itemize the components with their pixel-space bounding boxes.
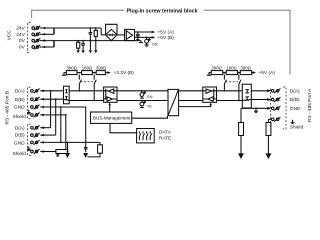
svg-text:Plug-in screw terminal block: Plug-in screw terminal block (127, 8, 199, 14)
svg-text:180Ω: 180Ω (82, 66, 93, 71)
svg-text:D(A): D(A) (290, 88, 300, 94)
svg-text:VCC: VCC (7, 30, 13, 41)
svg-text:D(B): D(B) (15, 133, 25, 139)
svg-text:0V: 0V (19, 38, 26, 44)
svg-text:GND: GND (14, 140, 25, 146)
svg-text:ON: ON (152, 42, 158, 46)
svg-text:390Ω: 390Ω (96, 66, 107, 71)
svg-text:Shield: Shield (12, 114, 26, 120)
svg-text:D(B): D(B) (15, 97, 25, 103)
svg-text:RS - 485 Port A: RS - 485 Port A (307, 88, 313, 122)
svg-text:GND: GND (14, 105, 25, 111)
svg-text:Shield: Shield (12, 151, 26, 157)
svg-text:390Ω: 390Ω (211, 66, 222, 71)
svg-text:RS - 485 Port B: RS - 485 Port B (5, 91, 11, 125)
svg-text:D(A): D(A) (15, 88, 25, 94)
svg-text:+5V (B): +5V (B) (158, 35, 175, 41)
svg-text:+3.3V (B): +3.3V (B) (114, 70, 135, 76)
svg-text:D(A): D(A) (15, 125, 25, 131)
svg-text:BUS-Management: BUS-Management (93, 116, 131, 121)
svg-text:+5V (A): +5V (A) (259, 70, 276, 76)
svg-text:GN: GN (147, 95, 153, 99)
svg-text:0V: 0V (19, 45, 26, 51)
svg-text:DATA: DATA (159, 129, 172, 135)
svg-text:Shield: Shield (290, 124, 304, 130)
svg-text:D(B): D(B) (290, 97, 300, 103)
svg-text:GND: GND (290, 106, 301, 112)
svg-text:390Ω: 390Ω (67, 66, 78, 71)
svg-text:24V: 24V (16, 32, 25, 38)
svg-text:YE: YE (147, 105, 153, 109)
svg-text:180Ω: 180Ω (226, 66, 237, 71)
svg-text:RATE: RATE (159, 136, 171, 142)
svg-text:390Ω: 390Ω (241, 66, 252, 71)
svg-text:+5V (A): +5V (A) (158, 30, 175, 36)
svg-text:24V: 24V (16, 26, 25, 32)
